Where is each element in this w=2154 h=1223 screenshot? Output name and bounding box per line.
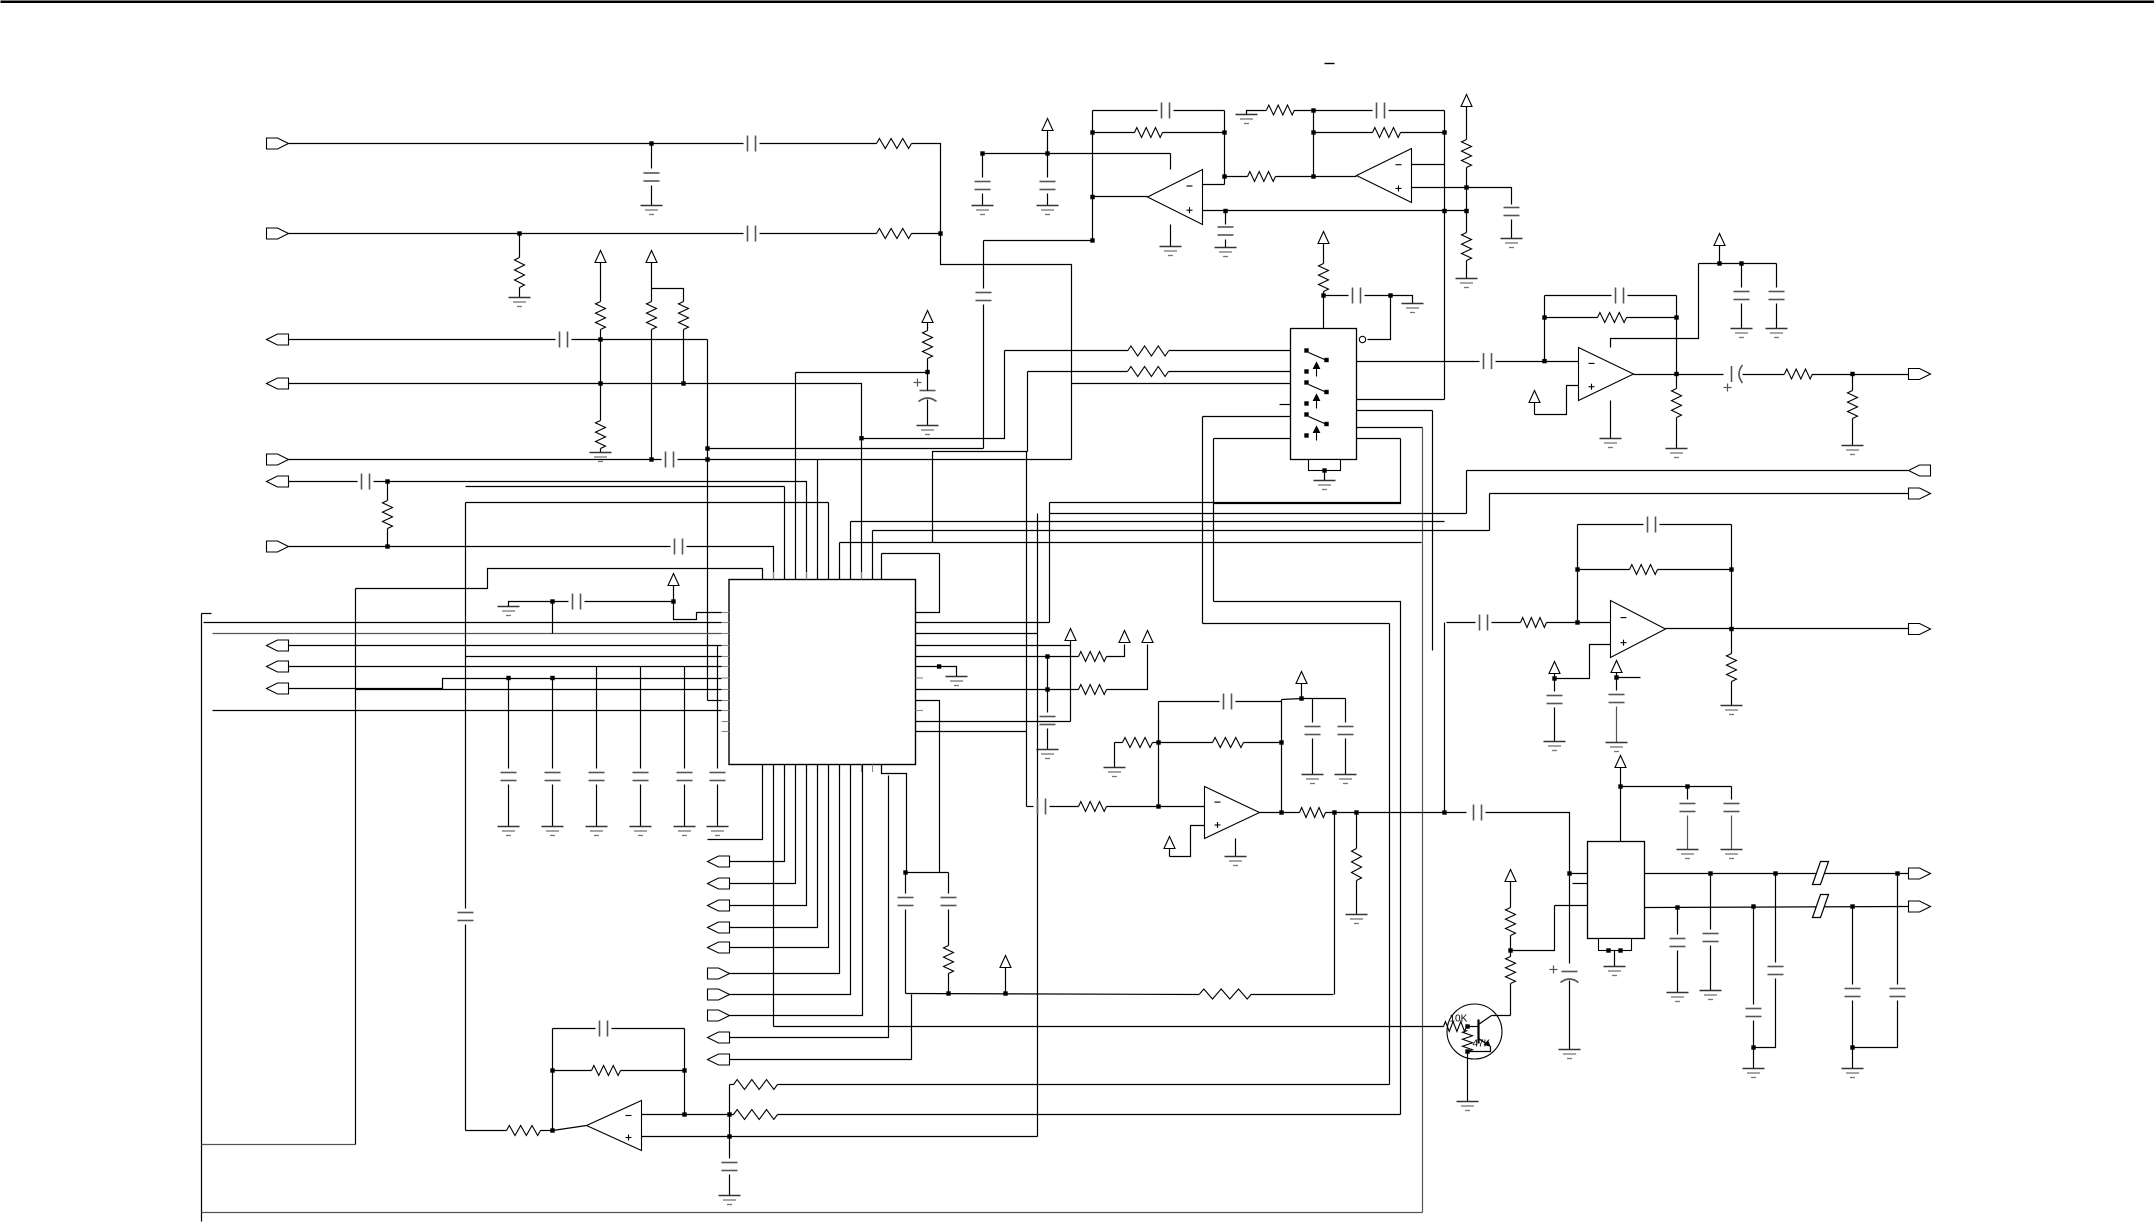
capacitor C20 <box>898 898 914 906</box>
capacitor C22 <box>600 1021 608 1037</box>
pin stub right <box>916 689 924 691</box>
wire elec2 stem2 <box>1569 981 1571 1050</box>
wire p5 vert <box>1202 417 1204 624</box>
pin stub left <box>722 622 730 624</box>
junction ctl2 <box>1388 293 1392 297</box>
pin stub left <box>722 721 730 723</box>
wire y1084 west stub <box>730 1084 734 1086</box>
wire <box>289 459 662 461</box>
ground G18 <box>1104 768 1126 777</box>
switch arrow 1 <box>1314 363 1320 377</box>
wire capbank2 684 <box>684 785 686 827</box>
junction sw-ctl <box>1321 293 1325 297</box>
wire clu5 <box>948 974 950 994</box>
junction fb2a <box>1311 108 1315 112</box>
wire pin721r <box>916 721 1071 723</box>
ground G19 <box>1225 857 1247 866</box>
wire pin700r <box>916 701 940 873</box>
ground G36 <box>1700 991 1722 1000</box>
wire <box>1159 701 1220 703</box>
wire y1084 longA <box>778 1084 1390 1086</box>
junction y1114-x729 <box>727 1112 731 1116</box>
wire r34 b <box>1852 419 1854 446</box>
capacitor C44 <box>1768 967 1784 975</box>
resistor R17 <box>1128 367 1169 377</box>
ground Gb717 <box>707 827 729 836</box>
connector J11 <box>1909 488 1931 499</box>
wire u7 in b <box>1050 806 1079 808</box>
wire r38 b <box>1731 682 1733 706</box>
wire to U2 apex <box>1276 176 1357 178</box>
ground G11 <box>1402 304 1424 313</box>
power VP16 <box>1611 661 1622 673</box>
pin stub left <box>722 689 730 691</box>
capacitor C38 <box>1680 804 1696 812</box>
capacitor C12 <box>1040 182 1056 190</box>
wire stub x201 <box>202 613 212 615</box>
ground G31 <box>1677 850 1699 859</box>
ground G30 <box>1606 743 1628 752</box>
wire tab gnd <box>1614 951 1616 967</box>
wire r18 up <box>1107 645 1125 657</box>
wire y502 west <box>466 502 829 504</box>
pin stub left <box>722 633 730 635</box>
wire fb8 res <box>1658 569 1732 571</box>
junction fb3b <box>1674 315 1678 319</box>
wire U2 minus <box>1412 164 1445 166</box>
connector Jm905 <box>708 900 730 911</box>
junction y873a <box>1708 871 1712 875</box>
junction y1047b <box>1850 1045 1854 1049</box>
resistor R24 <box>592 1066 621 1076</box>
switch contact a2 <box>1304 380 1308 384</box>
wire clu1 <box>905 873 907 894</box>
wire divider2 <box>651 330 653 460</box>
ground G35 <box>1667 993 1689 1002</box>
wire capbank2 508 <box>508 785 510 827</box>
capacitor C17 <box>458 913 474 921</box>
junction node-IN <box>938 231 942 235</box>
wire conn994 to pin <box>730 765 851 995</box>
connector J13 <box>1909 369 1931 380</box>
switch contact c2 <box>1324 390 1328 394</box>
wire q5 path <box>1214 439 1401 504</box>
wire fb6 top <box>612 1028 685 1030</box>
capacitor C7 <box>675 539 683 555</box>
wire c33 stem2 <box>1776 304 1778 329</box>
resistor R23 <box>507 1126 541 1136</box>
pin stub bottom <box>773 765 775 773</box>
capacitor Cb552 <box>545 773 561 781</box>
wire bias a <box>509 602 569 607</box>
junction vrail-b <box>1045 151 1049 155</box>
wire vp10 <box>1005 968 1007 994</box>
wire pin622 <box>204 622 722 624</box>
power VP12 <box>1296 672 1307 684</box>
wire c46 stem2 <box>1853 1001 1898 1048</box>
connector J4 <box>267 378 289 389</box>
wire pin666r <box>916 667 957 677</box>
wire U2 fb right rail <box>1444 111 1446 211</box>
wire vp19 stem <box>1070 641 1072 722</box>
wire pin689 <box>356 689 722 691</box>
pin stub bottom <box>784 765 786 773</box>
wire c38 stem <box>1687 787 1689 800</box>
resistor R31 <box>1352 849 1362 881</box>
wire c43 stem2 <box>1753 1021 1755 1048</box>
wire pin656 <box>466 656 722 658</box>
power VP14 <box>1714 234 1725 246</box>
power VP13 <box>1529 391 1540 403</box>
wire c36 stem2 <box>1554 708 1556 742</box>
wire pin839 up <box>839 543 841 580</box>
capacitor Cb596 <box>589 773 605 781</box>
capacitor C33 <box>1769 292 1785 300</box>
switch contact b2 <box>1304 401 1308 405</box>
capacitor C35 <box>1648 517 1656 533</box>
wire clu rail <box>906 872 949 874</box>
ground G1 <box>641 206 663 215</box>
wire u7 fb left <box>1158 702 1160 807</box>
wire u7 in c <box>1107 806 1205 808</box>
junction u3-minus <box>1542 359 1546 363</box>
resistor R41 <box>1506 957 1516 984</box>
ground Gb552 <box>542 827 564 836</box>
capacitor C2 <box>644 173 660 181</box>
wire c42 stem2 <box>1710 946 1712 991</box>
resistor R15 <box>1319 264 1329 292</box>
wire r35 b <box>1676 418 1678 449</box>
resistor R7 <box>679 302 689 330</box>
ground G10 <box>1501 239 1523 248</box>
svg-text:10K: 10K <box>1450 1014 1468 1025</box>
plus label <box>914 379 922 387</box>
wire <box>1093 110 1158 112</box>
wire <box>1314 132 1373 134</box>
pin stub right <box>916 622 924 624</box>
wire pin817 up <box>817 460 819 580</box>
wire c46 stem <box>1897 874 1899 985</box>
resistor R18 <box>1079 652 1107 662</box>
wire c28 stem <box>1345 699 1347 723</box>
connector Jm927 <box>708 922 730 933</box>
wire collector <box>1492 1015 1511 1017</box>
power VP11 <box>1164 837 1175 849</box>
wire c41 stem <box>1677 908 1679 935</box>
capacitor Cb717 <box>710 773 726 781</box>
capacitor C21 <box>941 898 957 906</box>
wire x1444 south <box>1444 623 1446 813</box>
junction sw-gnd <box>1322 468 1326 472</box>
wire <box>1324 295 1349 297</box>
wire q3 <box>1357 410 1433 412</box>
wire u3 out c <box>1813 374 1909 376</box>
pin stub right <box>916 700 924 702</box>
wire p2 b <box>1028 371 1128 373</box>
pin stub top <box>839 572 841 580</box>
wire <box>651 263 653 302</box>
switch bottom tab <box>1309 460 1341 471</box>
capacitor C14 <box>1504 208 1520 216</box>
switch contact a3 <box>1304 412 1308 416</box>
ground G6 <box>972 206 994 215</box>
wire ctl to bubble <box>1368 296 1391 340</box>
op-amp U7 <box>1205 787 1260 839</box>
ground G21 <box>1302 775 1324 784</box>
connector J6 <box>267 476 289 487</box>
wire p1 to line4 <box>862 351 1005 439</box>
wire u7 fb right <box>1281 700 1283 813</box>
capacitor C8 <box>976 293 992 301</box>
capacitor C4 <box>560 332 568 348</box>
wire U1 fb right rail <box>1224 111 1226 185</box>
wire x355 vertical <box>355 589 357 1145</box>
junction y873c <box>1895 871 1899 875</box>
pin stub top <box>817 572 819 580</box>
power VP1 <box>595 251 606 263</box>
wire c45 stem <box>1852 907 1854 985</box>
wire pin677 <box>289 679 722 689</box>
wire x983 lower <box>983 305 985 449</box>
wire r19 up <box>1107 645 1148 690</box>
pin stub bottom <box>828 765 830 773</box>
Q1 collector <box>1479 1016 1492 1025</box>
resistor R12 <box>1267 105 1295 115</box>
junction line2 <box>517 231 521 235</box>
wire u8 in c <box>1547 622 1611 624</box>
wire fb1 res <box>1163 132 1225 134</box>
ground G32 <box>1721 850 1743 859</box>
wire vp13 stem <box>1534 403 1536 415</box>
ground G16 <box>917 426 939 435</box>
wire r20 bot <box>927 359 929 373</box>
switch contact a1 <box>1304 348 1308 352</box>
wire <box>289 481 358 483</box>
wire vp14 stem <box>1719 246 1721 264</box>
wire res-fb2 <box>1295 110 1314 112</box>
wire <box>553 1028 596 1030</box>
wire r38 a <box>1731 629 1733 654</box>
power VP18 <box>1505 870 1516 882</box>
wire <box>1159 742 1213 744</box>
wire <box>289 546 671 548</box>
pin stub bottom <box>795 765 797 773</box>
resistor R26 <box>734 1080 778 1090</box>
junction U6-out <box>550 1128 554 1132</box>
wire <box>651 186 653 206</box>
ground G39 <box>1457 1102 1479 1111</box>
wire p5 <box>1203 416 1291 418</box>
wire <box>1578 569 1630 571</box>
capacitor C1 <box>748 136 756 152</box>
junction fb1 <box>1090 130 1094 134</box>
junction y448 <box>705 446 709 450</box>
wire line7 to IC <box>687 547 774 580</box>
pin stub bottom <box>861 765 863 773</box>
wire pin762 path <box>356 569 763 589</box>
wire y502 east <box>1050 502 1401 504</box>
wire conn493 <box>1490 493 1909 495</box>
ground G20 <box>1346 915 1368 924</box>
wire vp12 rail <box>1302 698 1346 700</box>
resistor R42 <box>1506 908 1516 936</box>
junction d1-line4 <box>598 381 602 385</box>
wire <box>1225 240 1227 248</box>
pin stub left <box>722 700 730 702</box>
wire c23 stem2 <box>729 1175 731 1196</box>
switch arrow 2 <box>1314 395 1320 409</box>
power VP4 <box>1461 95 1472 107</box>
pin stub top <box>872 572 874 580</box>
wire q1 cap a <box>1475 361 1480 363</box>
switch contact b3 <box>1304 433 1308 437</box>
pin stub top <box>784 572 786 580</box>
ground G23 <box>1600 439 1622 448</box>
transistor Q1 bar <box>1477 1020 1479 1044</box>
resistor R19 <box>1079 685 1107 695</box>
wire divider1 <box>600 330 602 421</box>
wire base line <box>774 1026 1444 1028</box>
wire u7 pwr <box>1235 839 1237 857</box>
wire <box>982 154 984 178</box>
wire capbank 717 <box>717 646 719 769</box>
wire conn1059 riser <box>730 995 912 1060</box>
wire p6 vert <box>1213 439 1215 602</box>
wire coll chain <box>1510 984 1512 1016</box>
junction U2-out <box>1311 174 1315 178</box>
junction u7-out <box>1279 810 1283 814</box>
resistor R2 <box>877 229 912 239</box>
wire x1466 <box>1466 471 1468 514</box>
wire elec top <box>927 373 929 391</box>
wire c32 stem2 <box>1741 304 1743 329</box>
pin stub left <box>722 666 730 668</box>
wire y1144 <box>202 1144 356 1146</box>
wire y873 rail <box>1645 873 1909 875</box>
wire pin881 up <box>881 554 883 580</box>
connector J8 <box>267 640 289 651</box>
wire y623 <box>1203 623 1390 625</box>
resistor R35 <box>1672 389 1682 418</box>
wire vp11 stem <box>1169 849 1171 857</box>
ground G8 <box>1236 115 1258 124</box>
ground G4 <box>1215 248 1237 257</box>
wire bias b <box>585 601 674 603</box>
wire c38 stem2 <box>1687 816 1689 850</box>
ground G38 <box>1842 1069 1864 1078</box>
wire <box>1225 211 1227 225</box>
transistor Q1 body <box>1447 1004 1502 1059</box>
wire x1037 vertical <box>1037 514 1039 1137</box>
capacitor C13 <box>1377 103 1385 119</box>
capacitor C46 <box>1890 989 1906 997</box>
wire c45 stem2 <box>1852 1001 1854 1048</box>
wire bottom rail <box>202 1212 1423 1214</box>
ground G37 <box>1743 1069 1765 1078</box>
wire u3 fb right <box>1676 296 1678 375</box>
junction fb8a <box>1575 567 1579 571</box>
resistor R6 <box>647 302 657 330</box>
wire reg pin2 <box>1573 883 1588 885</box>
wire vp12 stem <box>1301 684 1303 699</box>
wire c39 stem2 <box>1731 816 1733 850</box>
junction u3-out <box>1674 372 1678 376</box>
junction fb3a <box>1542 315 1546 319</box>
wire pin731r <box>916 731 1027 733</box>
pin stub right <box>916 656 924 658</box>
wire y530 <box>873 530 1490 532</box>
wire conn1037 riser <box>730 776 889 1038</box>
wire <box>760 233 877 235</box>
junction line1 <box>649 141 653 145</box>
pin stub right <box>916 633 924 635</box>
ferrite bead FB1 <box>1813 862 1829 885</box>
junction fb6a <box>550 1068 554 1072</box>
wire p2 a <box>1169 371 1291 373</box>
resistor R10 <box>1248 172 1276 182</box>
capacitor C41 <box>1670 939 1686 947</box>
junction U6-minus <box>682 1112 686 1116</box>
wire x1334 south <box>1334 813 1336 995</box>
capacitor C29 <box>1484 353 1492 369</box>
power VP19 <box>1065 629 1076 641</box>
wire x1047 vertical <box>1047 657 1049 713</box>
power VP6 <box>668 574 679 586</box>
capacitor Cb684 <box>677 773 693 781</box>
resistor R39 10K <box>1444 1022 1467 1032</box>
junction line6 <box>385 479 389 483</box>
junction vrail-a <box>980 151 984 155</box>
resistor R21 <box>944 946 954 974</box>
switch contact c3 <box>1324 422 1328 426</box>
ground G17 <box>719 1196 741 1205</box>
wire x465 lower <box>465 925 467 1131</box>
wire p2 vert <box>1027 372 1029 452</box>
wire conn905 to pin <box>730 765 807 906</box>
wire vp16 stem <box>1616 673 1618 678</box>
wire line4 to IC <box>289 384 862 580</box>
wire r28 gnd <box>1114 743 1116 768</box>
wire pin645r <box>916 645 1071 647</box>
pin stub right <box>916 731 924 733</box>
connector J9 <box>267 661 289 672</box>
junction cb2 <box>550 676 554 680</box>
wire c44 stem2 <box>1754 979 1776 1048</box>
pin stub top <box>762 572 764 580</box>
pin stub right <box>916 677 924 679</box>
wire pin666 <box>289 666 722 668</box>
resistor R14 <box>1462 233 1472 261</box>
junction x1047b <box>1045 687 1049 691</box>
wire line6 to IC <box>374 482 807 580</box>
wire p6 <box>1214 438 1291 440</box>
resistor R37 <box>1630 565 1658 575</box>
connector Jm861 <box>708 856 730 867</box>
op-amp U6 <box>587 1101 642 1151</box>
wire q1 a <box>1357 361 1475 363</box>
junction out-b <box>1354 810 1358 814</box>
wire U1 minus <box>1203 184 1225 186</box>
capacitor C34 <box>1480 615 1488 631</box>
ground G29 <box>1721 706 1743 715</box>
wire y1114 long <box>778 1114 1401 1116</box>
junction clu-a <box>903 870 907 874</box>
pin stub left <box>722 645 730 647</box>
resistor R27 <box>1079 802 1107 812</box>
ground G15 <box>946 677 968 686</box>
switch arrow 3 <box>1314 427 1320 441</box>
wire fb6 res <box>621 1070 685 1072</box>
